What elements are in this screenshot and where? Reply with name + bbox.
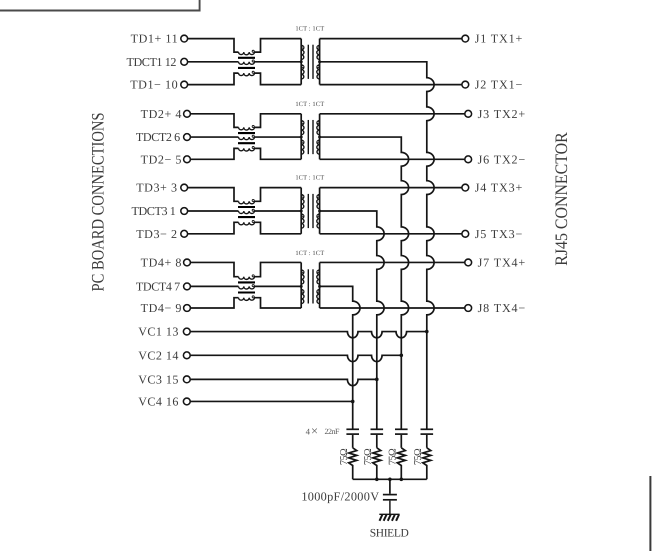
svg-text:TD1− 10: TD1− 10 bbox=[130, 78, 178, 92]
svg-text:TD3+ 3: TD3+ 3 bbox=[136, 181, 177, 195]
svg-text:1CT : 1CT: 1CT : 1CT bbox=[295, 26, 324, 33]
svg-text:75Ω: 75Ω bbox=[339, 448, 350, 465]
svg-text:TDCT2 6: TDCT2 6 bbox=[136, 130, 180, 144]
svg-text:VC3 15: VC3 15 bbox=[138, 372, 179, 386]
svg-text:J5 TX3−: J5 TX3− bbox=[475, 227, 524, 241]
svg-text:1000pF/2000V: 1000pF/2000V bbox=[301, 489, 379, 503]
svg-text:4: 4 bbox=[306, 426, 311, 436]
svg-text:1CT : 1CT: 1CT : 1CT bbox=[295, 175, 324, 182]
svg-text:TD4+ 8: TD4+ 8 bbox=[141, 255, 182, 269]
svg-text:SHIELD: SHIELD bbox=[370, 528, 409, 540]
svg-text:J6 TX2−: J6 TX2− bbox=[478, 152, 526, 166]
svg-text:75Ω: 75Ω bbox=[363, 448, 374, 465]
svg-text:TD2+ 4: TD2+ 4 bbox=[141, 107, 182, 121]
svg-text:J7 TX4+: J7 TX4+ bbox=[478, 255, 526, 269]
svg-text:J8 TX4−: J8 TX4− bbox=[478, 301, 526, 315]
svg-text:1CT : 1CT: 1CT : 1CT bbox=[295, 250, 324, 257]
svg-text:TDCT1 12: TDCT1 12 bbox=[126, 55, 176, 69]
svg-text:VC1 13: VC1 13 bbox=[138, 325, 179, 339]
svg-text:75Ω: 75Ω bbox=[413, 448, 424, 465]
svg-text:J3 TX2+: J3 TX2+ bbox=[478, 107, 526, 121]
svg-text:22nF: 22nF bbox=[325, 427, 341, 436]
svg-text:TD1+ 11: TD1+ 11 bbox=[131, 32, 179, 46]
svg-text:TD2− 5: TD2− 5 bbox=[141, 152, 182, 166]
svg-text:J2 TX1−: J2 TX1− bbox=[475, 78, 524, 92]
svg-text:J1 TX1+: J1 TX1+ bbox=[475, 32, 524, 46]
svg-text:J4 TX3+: J4 TX3+ bbox=[475, 181, 524, 195]
svg-text:VC2 14: VC2 14 bbox=[138, 348, 179, 362]
svg-text:×: × bbox=[311, 424, 318, 438]
svg-text:TD4− 9: TD4− 9 bbox=[141, 301, 182, 315]
svg-text:PC BOARD CONNECTIONS: PC BOARD CONNECTIONS bbox=[87, 112, 107, 291]
svg-text:1CT : 1CT: 1CT : 1CT bbox=[295, 101, 324, 108]
svg-text:TDCT4 7: TDCT4 7 bbox=[136, 279, 180, 293]
svg-text:75Ω: 75Ω bbox=[387, 448, 398, 465]
svg-text:TD3− 2: TD3− 2 bbox=[136, 227, 177, 241]
svg-text:VC4 16: VC4 16 bbox=[138, 394, 179, 408]
svg-text:RJ45 CONNECTOR: RJ45 CONNECTOR bbox=[551, 132, 571, 266]
svg-text:TDCT3 1: TDCT3 1 bbox=[131, 204, 175, 218]
